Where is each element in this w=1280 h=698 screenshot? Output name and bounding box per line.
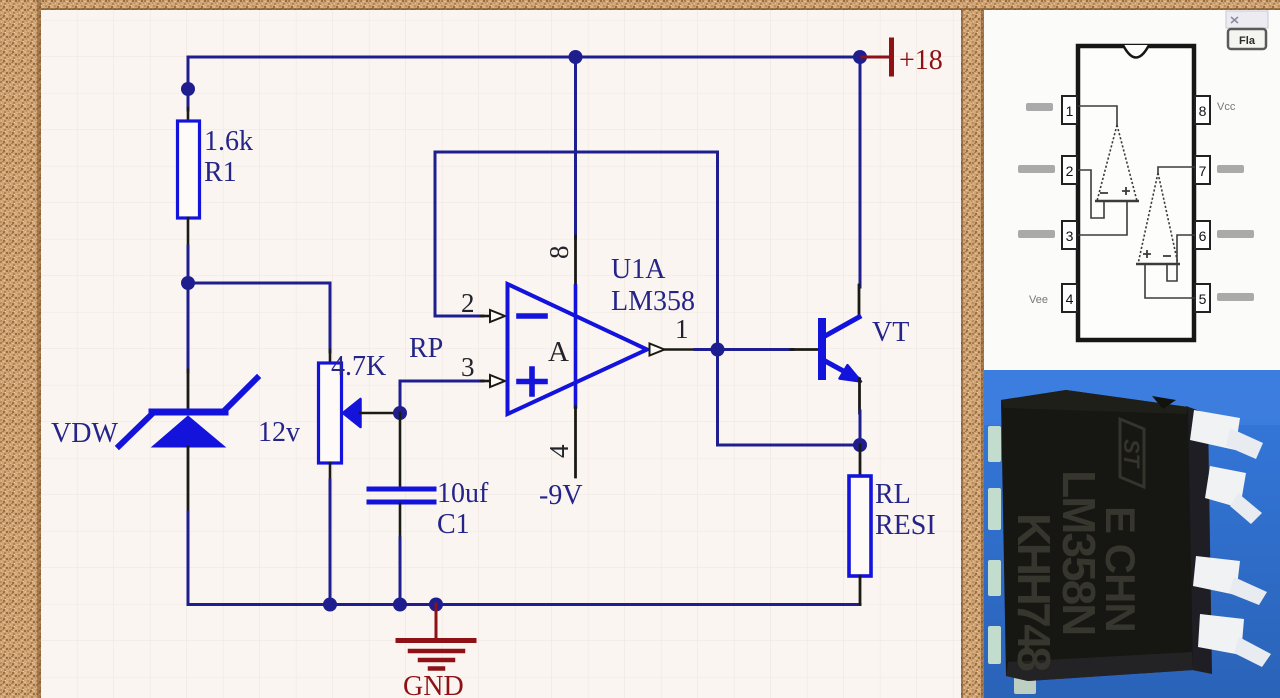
- cork border left: [0, 0, 41, 698]
- resistor R1: [178, 121, 200, 218]
- wire wiper node down to C1: [399, 413, 402, 486]
- pin zener cathode: [187, 370, 190, 409]
- node wiper junction: [393, 406, 407, 420]
- node C1 bottom rail: [393, 598, 407, 612]
- pin op-amp 2 stub: [481, 315, 492, 318]
- svg-text:2: 2: [1066, 163, 1074, 179]
- pin RL bottom: [859, 576, 862, 604]
- svg-text:R1: R1: [204, 157, 237, 188]
- svg-text:2: 2: [461, 288, 475, 318]
- pin diagram U1 LM358 DIP-8: [1018, 45, 1254, 340]
- svg-text:C1: C1: [437, 509, 470, 540]
- pin 1 output stub: [665, 348, 697, 351]
- zener diode VDW: [119, 378, 257, 447]
- pin 8-4 through triangle: [574, 286, 578, 407]
- wire collector rail: [859, 57, 862, 287]
- cork border middle vertical: [961, 10, 984, 698]
- op-amp B internal wiring: [1136, 167, 1195, 298]
- pin VT emitter stub: [858, 379, 861, 413]
- pin VT base stub: [791, 348, 818, 351]
- pin box 1: [1062, 96, 1077, 124]
- pin box 8: [1195, 96, 1210, 124]
- wire RP wiper to node: [360, 412, 400, 415]
- pin box 6: [1195, 221, 1210, 249]
- floating widget top right: [1226, 11, 1268, 49]
- svg-text:RESI: RESI: [875, 510, 936, 541]
- chip pin 3 white: [1193, 556, 1267, 605]
- pin op-amp 3 stub: [481, 380, 492, 383]
- svg-text:A: A: [548, 336, 569, 368]
- svg-text:Fla: Fla: [1239, 35, 1256, 47]
- wire left vertical to R1: [187, 57, 190, 110]
- node op-amp output: [711, 343, 725, 357]
- svg-text:LM358: LM358: [611, 286, 695, 317]
- pin R1 bottom: [187, 218, 190, 248]
- node R1 top: [181, 82, 195, 96]
- pin box 7: [1195, 156, 1210, 184]
- wire zener to bottom rail: [187, 512, 190, 605]
- pin 1 output arrowhead: [650, 344, 665, 356]
- pin box 3: [1062, 221, 1077, 249]
- node top rail right: [853, 50, 867, 64]
- svg-text:+18: +18: [899, 45, 943, 76]
- svg-text:3: 3: [1066, 228, 1074, 244]
- potentiometer RP wiper arrow: [343, 399, 361, 427]
- chip top face shading: [1001, 390, 1188, 414]
- wire feedback loop: [435, 152, 718, 350]
- node ground junction: [429, 598, 443, 612]
- photo of LM358N chip: [984, 370, 1280, 694]
- svg-text:8: 8: [1199, 103, 1207, 119]
- pin 8 stub: [574, 236, 577, 286]
- op-amp minus sign: [519, 313, 545, 319]
- chip pin 2 white: [1205, 466, 1262, 524]
- schematic text labels: [51, 45, 943, 698]
- node RP bottom rail: [323, 598, 337, 612]
- svg-text:10uf: 10uf: [437, 478, 489, 509]
- photo highlight: [984, 370, 1280, 425]
- wire wiper node up and to pin3: [400, 381, 483, 413]
- IC notch: [1123, 45, 1149, 58]
- svg-text:4: 4: [544, 444, 574, 458]
- svg-text:Vcc: Vcc: [1217, 101, 1236, 113]
- op-amp plus sign: [519, 369, 545, 394]
- pin C1 bottom: [399, 504, 402, 540]
- chip bottom face shading: [1006, 652, 1193, 681]
- pin zener anode: [187, 447, 190, 514]
- node power rail top: [569, 50, 583, 64]
- chip pin 4 white: [1198, 614, 1271, 667]
- svg-text:KHH748: KHH748: [1008, 513, 1060, 671]
- wire C1 to bottom rail: [399, 538, 402, 605]
- pin 2 arrowhead: [490, 310, 505, 322]
- wire node to RP column: [188, 283, 330, 352]
- potentiometer RP body: [319, 363, 342, 463]
- svg-text:7: 7: [1199, 163, 1207, 179]
- chip side face right: [1186, 406, 1212, 674]
- pin 4 stub to -9V: [574, 407, 577, 477]
- cork border top: [41, 0, 1280, 10]
- top-right panel background: [984, 10, 1280, 370]
- chip ST logo: [1119, 419, 1144, 487]
- wire output to base: [718, 348, 794, 351]
- resistor RL: [849, 476, 871, 576]
- svg-text:1: 1: [1066, 103, 1074, 119]
- wire power rail vertical: [574, 57, 577, 238]
- svg-text:1.6k: 1.6k: [204, 126, 253, 157]
- pin box 5: [1195, 284, 1210, 312]
- svg-text:12v: 12v: [258, 417, 300, 448]
- svg-text:RL: RL: [875, 479, 911, 510]
- pin VT collector stub: [858, 285, 861, 317]
- wire output to node: [695, 348, 718, 351]
- wire output down to emitter node: [718, 350, 861, 446]
- svg-text:6: 6: [1199, 228, 1207, 244]
- svg-text:4.7K: 4.7K: [331, 351, 386, 382]
- svg-text:GND: GND: [403, 671, 464, 698]
- pin label blobs right: [1217, 165, 1254, 301]
- pin RP top: [329, 350, 332, 363]
- node emitter: [853, 438, 867, 452]
- chip bottom pad: [1014, 672, 1036, 694]
- pin box 2: [1062, 156, 1077, 184]
- pin R1 top: [187, 108, 190, 121]
- op-amp U1A triangle: [508, 284, 648, 414]
- wire bottom rail: [188, 603, 860, 606]
- svg-text:3: 3: [461, 352, 475, 382]
- svg-text:VDW: VDW: [51, 418, 118, 449]
- power +18 bar: [889, 40, 894, 74]
- wire R1 to node: [187, 246, 190, 283]
- chip pin 1 white: [1190, 410, 1263, 459]
- transistor VT: [822, 317, 861, 382]
- power +18 wire: [862, 56, 889, 59]
- capacitor C1: [369, 489, 434, 502]
- bottom-right photo panel background: [984, 370, 1280, 698]
- svg-text:-9V: -9V: [539, 480, 583, 511]
- wire to pin2: [435, 315, 483, 318]
- svg-text:RP: RP: [409, 333, 443, 364]
- svg-text:ST: ST: [1119, 439, 1144, 469]
- wire emitter to node: [859, 411, 862, 445]
- ground GND symbol: [398, 604, 474, 669]
- chip corner notch: [1152, 396, 1176, 409]
- op-amp A internal wiring: [1078, 106, 1139, 235]
- wire node down to zener: [187, 283, 190, 372]
- pin label blobs left: [1018, 103, 1055, 238]
- svg-text:U1A: U1A: [611, 254, 666, 285]
- wire top rail: [188, 56, 860, 59]
- svg-text:Vee: Vee: [1029, 294, 1048, 306]
- node left junction: [181, 276, 195, 290]
- pin RL top: [859, 445, 862, 476]
- pin RP bottom: [329, 463, 332, 482]
- pin box 4: [1062, 284, 1077, 312]
- wire RP to bottom rail: [329, 480, 332, 605]
- svg-text:5: 5: [1199, 291, 1207, 307]
- pin numbers: [1066, 103, 1207, 307]
- chip body: [1001, 390, 1193, 681]
- IC body outline: [1078, 46, 1194, 340]
- svg-text:4: 4: [1066, 291, 1074, 307]
- svg-text:1: 1: [675, 314, 689, 344]
- chip left pads: [988, 426, 1001, 664]
- svg-text:VT: VT: [872, 317, 909, 348]
- svg-text:8: 8: [544, 246, 574, 260]
- pin 3 arrowhead: [490, 375, 505, 387]
